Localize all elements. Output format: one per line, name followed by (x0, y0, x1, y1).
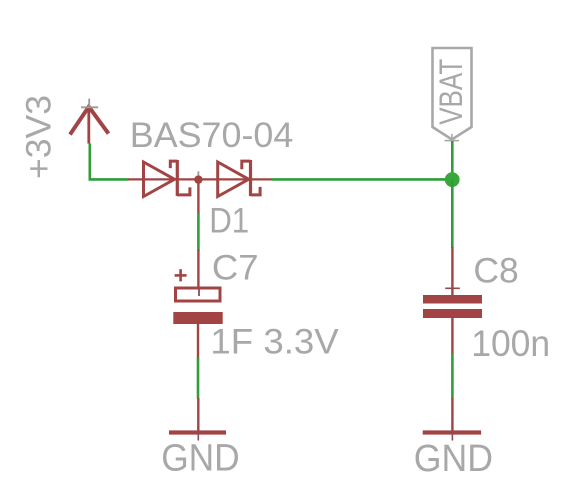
capacitor C8 (100n) (423, 247, 482, 354)
wire +3V3 to D1 anode (90, 144, 129, 180)
svg-text:VBAT: VBAT (433, 59, 469, 125)
supply flag VBAT (433, 48, 472, 147)
svg-text:C7: C7 (212, 247, 259, 287)
power symbol +3V3 (70, 99, 109, 144)
wire C7 to GND left (197, 358, 200, 399)
D1 pin 3 stub down (197, 180, 199, 214)
ground GND (left) (169, 398, 226, 441)
C8 plate 2 (423, 309, 482, 318)
D1 pin 1 / through line (128, 178, 272, 180)
svg-text:GND: GND (161, 438, 240, 480)
D1B anode triangle (218, 162, 249, 197)
wire junction to C8 (451, 179, 454, 248)
svg-text:BAS70-04: BAS70-04 (130, 115, 293, 155)
D1B schottky cathode bar (249, 160, 252, 196)
C8 pin 2 (451, 318, 453, 354)
D1A anode triangle (144, 162, 175, 197)
wire C8 to GND right (451, 354, 454, 399)
C7 positive plate (hollow) (176, 288, 221, 301)
C7 plus sign (175, 274, 187, 277)
svg-text:100n: 100n (471, 323, 550, 364)
svg-text:+3V3: +3V3 (20, 95, 59, 179)
wire VBAT flag to junction (451, 141, 454, 179)
D1 common node junction dot (194, 175, 202, 183)
wire D1 pin 3 to C7 (197, 213, 200, 251)
C7 negative plate (filled) (173, 312, 222, 324)
junction node VBAT (dot) (445, 172, 460, 187)
C8 plate 1 (423, 295, 482, 304)
C7 pin - (197, 324, 199, 359)
svg-text:1F 3.3V: 1F 3.3V (210, 321, 339, 361)
ground GND (right) (423, 398, 481, 441)
diode D1 (BAS70-04 dual Schottky, series) (128, 160, 272, 214)
C7 pin + (197, 250, 199, 288)
capacitor C7 (polarized 1F 3.3V) (173, 250, 222, 359)
C8 pin 1 (451, 247, 453, 295)
wire D1 cathode to node VBAT (272, 178, 453, 181)
svg-text:C8: C8 (473, 251, 518, 291)
svg-text:D1: D1 (209, 200, 249, 240)
svg-text:GND: GND (414, 438, 493, 480)
D1A schottky cathode bar (176, 160, 179, 196)
